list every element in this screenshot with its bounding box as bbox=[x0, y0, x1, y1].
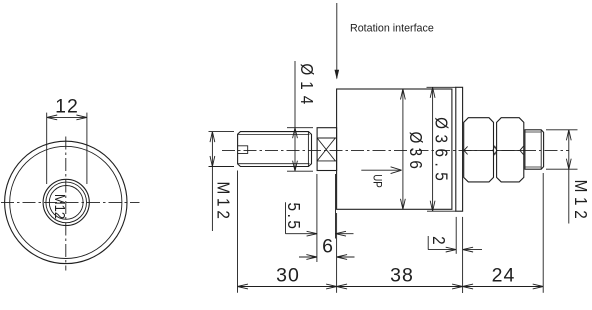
dim M12 right arrow up bbox=[566, 130, 571, 141]
bearing collar outline bbox=[317, 128, 337, 171]
svg-text:12: 12 bbox=[55, 95, 79, 117]
rotation interface arrowhead bbox=[335, 70, 340, 80]
dim phi14 arrow down bbox=[293, 161, 298, 172]
dim phi36 dimension line bbox=[402, 89, 404, 209]
hex nut 1 mid line bbox=[464, 149, 494, 151]
svg-text:Ø36: Ø36 bbox=[405, 131, 425, 173]
bearing band top line bbox=[317, 137, 337, 139]
svg-text:38: 38 bbox=[390, 265, 414, 287]
dim 2 arrow right bbox=[463, 247, 474, 252]
dim 5.5 dimension line left bbox=[286, 233, 318, 235]
bottom dim arrow left end bbox=[238, 284, 249, 289]
dim 12 extension line right bbox=[86, 113, 88, 184]
dim 6 dimension line right bbox=[337, 256, 355, 258]
bearing cross diagonal 1 bbox=[317, 138, 335, 161]
hex nut 2 bbox=[497, 118, 524, 182]
svg-text:24: 24 bbox=[492, 265, 516, 287]
svg-text:M12: M12 bbox=[571, 180, 591, 224]
dim M12 right dimension line bbox=[568, 130, 570, 224]
front view chamfer circle bbox=[10, 146, 122, 258]
bottom dim extension line far left bbox=[237, 171, 239, 293]
dim 12 extension line left bbox=[46, 113, 48, 184]
dim phi36.5 dimension line bbox=[432, 87, 434, 211]
up direction arrow bbox=[361, 169, 399, 171]
bottom dim arrows at flange right bbox=[452, 284, 473, 289]
left shaft end chamfer line bbox=[307, 132, 309, 167]
svg-text:5.5: 5.5 bbox=[284, 203, 304, 232]
svg-text:M12: M12 bbox=[213, 181, 233, 222]
svg-text:Rotation interface: Rotation interface bbox=[350, 23, 434, 35]
hub middle circle bbox=[46, 182, 87, 223]
svg-text:6: 6 bbox=[322, 235, 333, 257]
dim M12 right extension line top bbox=[546, 129, 578, 131]
dim 12 arrow right bbox=[76, 115, 87, 120]
rotation interface leader line bbox=[336, 3, 338, 79]
right stud chamfer line bbox=[540, 130, 542, 169]
dim 12 arrow left bbox=[47, 115, 58, 120]
up direction arrowhead bbox=[391, 167, 402, 174]
dim 2 extension line right bbox=[462, 217, 464, 293]
bottom dim arrows at body left bbox=[326, 284, 347, 289]
dim 5.5 arrow right bbox=[336, 231, 347, 236]
svg-text:Ø36.5: Ø36.5 bbox=[431, 117, 451, 186]
dim 2 dimension line left bbox=[428, 249, 456, 251]
side view centerline bbox=[222, 149, 569, 151]
dim M12 left arrow down bbox=[210, 156, 215, 167]
dim M12 left extension line bottom bbox=[209, 166, 235, 168]
nut junction diamond bbox=[493, 146, 497, 154]
left shaft slot bbox=[238, 146, 248, 154]
svg-text:Ø14: Ø14 bbox=[296, 63, 316, 110]
dim 12 dimension line bbox=[47, 116, 87, 118]
front view vertical centerline bbox=[65, 137, 67, 271]
dim phi36 arrow down bbox=[401, 199, 406, 210]
bottom dim extension line far right bbox=[542, 173, 544, 293]
dim M12 left extension line top bbox=[209, 131, 235, 133]
bearing band bottom line bbox=[317, 160, 337, 162]
dim M12 left dimension line bbox=[211, 132, 213, 231]
hub thread circle bbox=[49, 186, 83, 220]
hex nut 2 mid line bbox=[497, 149, 524, 151]
svg-text:2: 2 bbox=[429, 236, 449, 245]
hub outer circle bbox=[43, 179, 89, 225]
front view outer circle bbox=[5, 141, 127, 263]
dim 2 extension line left bbox=[455, 217, 457, 254]
dim phi36 arrow up bbox=[401, 89, 406, 100]
dim 6 arrow right bbox=[337, 255, 348, 260]
dim 5.5 bracket vertical bbox=[285, 202, 287, 234]
svg-text:30: 30 bbox=[276, 265, 300, 287]
dim phi14 extension line top bbox=[287, 127, 313, 129]
hex nut 1 left chamfer notch bbox=[464, 146, 468, 154]
dim 6 arrow left bbox=[306, 255, 317, 260]
dim 6 dimension line left bbox=[299, 256, 317, 258]
dim 5.5 extension line right bbox=[335, 174, 337, 239]
right stud outline bbox=[525, 130, 544, 169]
dim M12 right extension line bottom bbox=[546, 168, 578, 170]
dim phi14 extension line bottom bbox=[287, 170, 313, 172]
bearing cross diagonal 2 bbox=[317, 138, 335, 161]
svg-text:M12: M12 bbox=[52, 194, 68, 219]
dim 5.5 arrow left bbox=[307, 231, 318, 236]
dim phi36.5 arrow down bbox=[430, 201, 435, 212]
dim M12 right arrow down bbox=[566, 159, 571, 170]
dim phi36.5 extension line top bbox=[427, 86, 457, 88]
left shaft thread lines bbox=[238, 134, 310, 163]
hex nut 1 bbox=[464, 118, 494, 182]
dim phi36.5 arrow up bbox=[430, 87, 435, 98]
main body bbox=[337, 89, 452, 209]
dim 2 dimension line right bbox=[463, 249, 482, 251]
dim phi14 arrow up bbox=[293, 128, 298, 139]
flange ring bbox=[456, 87, 463, 211]
bottom dimension line bbox=[238, 286, 544, 288]
left shaft outline bbox=[238, 132, 312, 167]
right stud thread lines bbox=[525, 132, 541, 167]
dim phi36.5 extension line bottom bbox=[427, 210, 456, 212]
dim M12 left arrow up bbox=[210, 132, 215, 143]
front view horizontal centerline bbox=[1, 201, 140, 203]
dim 2 bracket vertical bbox=[427, 236, 429, 250]
dim phi14 dimension line bbox=[294, 61, 296, 171]
dim 6 extension line left bbox=[316, 174, 318, 262]
dim 2 arrow left bbox=[446, 247, 457, 252]
svg-text:UP: UP bbox=[370, 174, 383, 188]
dim 5.5 dimension line right bbox=[336, 233, 354, 235]
bottom dim extension line body left bbox=[336, 213, 338, 293]
bottom dim arrow right end bbox=[533, 284, 544, 289]
hex nut 2 right chamfer notch bbox=[520, 146, 524, 154]
